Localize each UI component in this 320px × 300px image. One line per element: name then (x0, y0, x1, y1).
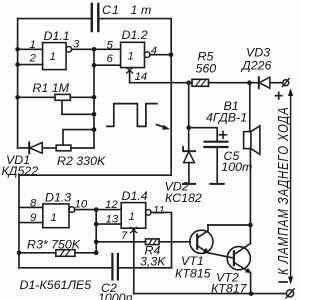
wire D1.2 output (150, 54, 171, 56)
node dot right rail R1 (92, 95, 97, 100)
wire pin9 (19, 222, 43, 224)
resistor R5 (192, 79, 209, 86)
wire VT2 emitter vertical (250, 272, 252, 293)
diode VD3 (259, 77, 270, 88)
zener diode VD2 (183, 147, 195, 163)
node dot 96 R4 (94, 240, 99, 245)
capacitor C1 (92, 4, 99, 31)
node dot 96 pin13 (94, 222, 99, 227)
svg-text:КС182: КС182 (165, 191, 202, 205)
wire C2 row left (19, 267, 112, 269)
wire C5 branch row (189, 128, 218, 142)
wire bottom rail (134, 293, 287, 295)
svg-text:13: 13 (106, 214, 119, 226)
wire VD3 to plus terminal (270, 82, 283, 84)
capacitor C2 (112, 254, 118, 279)
node dot 96 out10 (94, 207, 99, 212)
op-gate D1.1 (43, 43, 72, 70)
op-gate D1.3 (43, 204, 75, 228)
pin 14 mark x (127, 68, 133, 73)
svg-text:2: 2 (29, 53, 37, 65)
svg-text:C1: C1 (102, 3, 120, 17)
svg-text:7: 7 (121, 230, 128, 242)
svg-text:VD3: VD3 (246, 46, 270, 60)
wire VD2 branch vertical (188, 83, 190, 152)
node dot collector (248, 223, 253, 228)
node dot left rail R1 (15, 95, 20, 100)
svg-text:560: 560 (196, 62, 217, 76)
wire D1.3 out (74, 209, 96, 211)
svg-text:D1.4: D1.4 (122, 189, 148, 203)
wire left rail vertical (17, 19, 19, 148)
wire B1 top (249, 83, 251, 132)
svg-text:К ЛАМПАМ ЗАДНЕГО ХОДА: К ЛАМПАМ ЗАДНЕГО ХОДА (274, 106, 291, 275)
svg-text:100m: 100m (221, 160, 252, 174)
svg-text:9: 9 (30, 212, 37, 224)
svg-text:14: 14 (135, 71, 148, 83)
wire VT1 emitter to VT2 base (208, 253, 234, 258)
node dot left rail pin2 (15, 62, 20, 67)
annotation double arrow (288, 88, 293, 285)
wire pin13 (96, 223, 121, 225)
plus sign C5 (220, 131, 227, 138)
resistor R4 with row (96, 239, 190, 245)
ground bar VD2 (183, 183, 195, 185)
wire D1.4 out pin11 (151, 212, 172, 267)
svg-text:D1.3: D1.3 (45, 191, 71, 205)
svg-text:D1-К561ЛЕ5: D1-К561ЛЕ5 (20, 278, 92, 292)
wire pin12 (96, 209, 121, 211)
svg-text:1: 1 (128, 51, 134, 63)
terminal plus (282, 78, 289, 86)
wire pin14 stub (129, 71, 131, 83)
node dot bottom rail emitter (249, 291, 254, 296)
pin 7 mark x (131, 227, 137, 232)
wire top rail from left rail to C1 left plate (18, 18, 91, 20)
svg-text:1000п: 1000п (98, 291, 133, 300)
wire pin7 vertical to bottom rail (133, 231, 135, 294)
capacitor C5 (205, 142, 228, 147)
wire pin2 input (18, 64, 43, 66)
ground bar C5 (210, 183, 223, 185)
svg-text:1: 1 (129, 211, 135, 223)
svg-text:Д226: Д226 (240, 59, 272, 73)
node dot right rail p3 (92, 47, 97, 52)
node dot D1.2 out (169, 52, 174, 57)
wire pin1 input (18, 48, 43, 50)
wire VT2 collector vertical (249, 225, 251, 243)
node dot R3 left (17, 251, 22, 256)
transistor VT1 (190, 225, 213, 253)
transistor VT2 (227, 243, 251, 273)
svg-text:5: 5 (107, 40, 114, 52)
wire C1 right plate to top-right corner (100, 18, 172, 20)
op-gate D1.2 (121, 42, 150, 67)
wire row 175 D1.2out to D1.3 inputs (19, 174, 171, 176)
svg-text:1: 1 (51, 212, 57, 224)
wire pin6 (94, 64, 121, 66)
svg-text:1: 1 (50, 51, 56, 63)
resistor R2 (56, 145, 71, 151)
op-gate D1.4 (121, 203, 151, 229)
svg-text:R1 1M: R1 1M (33, 81, 70, 95)
node dot right rail mid1 (92, 112, 97, 117)
plus sign top (276, 93, 282, 100)
svg-text:D1.1: D1.1 (44, 29, 70, 43)
svg-text:6: 6 (107, 53, 114, 65)
node dot right rail p6 (92, 63, 97, 68)
wire node96 vertical (95, 210, 97, 253)
node dot right rail mid2 (92, 127, 97, 132)
svg-text:8: 8 (30, 198, 37, 210)
wire right vertical from top corner down to row175 (170, 19, 172, 176)
wire C5 bottom (216, 147, 218, 184)
svg-text:КТ817: КТ817 (211, 282, 248, 296)
svg-text:3,3K: 3,3K (140, 255, 166, 269)
svg-text:R3* 750K: R3* 750K (27, 238, 81, 252)
terminal minus (286, 289, 294, 298)
node dot VD3 anode / B1 (247, 80, 252, 85)
resistor R1 (18, 94, 94, 100)
minus sign bottom (279, 281, 287, 283)
resistor R3 with row (19, 250, 96, 257)
node dot 96 R3 (94, 251, 99, 256)
svg-text:10: 10 (75, 199, 88, 211)
svg-text:4ГДВ-1: 4ГДВ-1 (206, 111, 247, 125)
wire pin8 (19, 206, 43, 208)
wire D1.1 output to right rail (72, 48, 95, 50)
svg-text:11: 11 (153, 205, 165, 217)
speaker B1 (244, 126, 260, 155)
svg-text:D1.2: D1.2 (122, 28, 148, 42)
svg-text:R2 330K: R2 330K (57, 154, 106, 168)
wire C2 row right (119, 267, 172, 269)
node dot left rail pin1 (15, 47, 20, 52)
waveform arrow (157, 125, 171, 130)
wire VT1 collector row (208, 224, 250, 226)
svg-text:КТ815: КТ815 (175, 267, 211, 281)
svg-text:1m: 1m (131, 3, 155, 17)
svg-text:12: 12 (105, 199, 118, 211)
wire R2 to rail corner (71, 147, 94, 149)
wire row mid2 (63, 130, 94, 145)
wire supply row to R5 (130, 82, 192, 84)
diode VD1 (18, 143, 57, 154)
svg-text:1: 1 (30, 39, 36, 51)
wire R5 to VD3 (209, 82, 259, 84)
waveform oscillogram (107, 104, 157, 127)
wire right rail vertical (93, 49, 95, 148)
wire R1 sub branch (62, 100, 94, 114)
node dot supply/VD2 branch (186, 80, 191, 85)
wire VD2 anode (188, 163, 190, 184)
wire B1 bottom to collector node (249, 149, 251, 225)
wire pin5 (94, 48, 121, 50)
node dot C5 branch (186, 125, 191, 130)
wire left lower rail (18, 175, 20, 268)
